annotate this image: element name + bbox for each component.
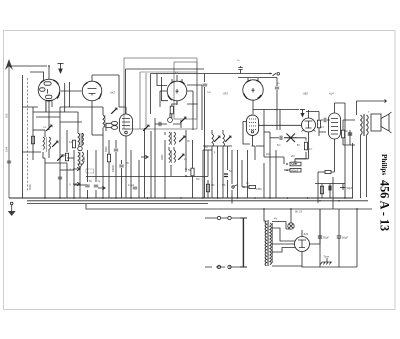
wire output stage (357, 101, 367, 198)
oscillator coil L4 (169, 132, 176, 145)
capacitor C4d (114, 149, 118, 151)
tube U4 (243, 78, 263, 114)
switch contact S2 (73, 182, 80, 186)
wire right-mid (318, 172, 333, 209)
capacitor C7 (280, 136, 282, 140)
svg-text:5m: 5m (229, 170, 232, 173)
tube envelope V1 (120, 107, 133, 198)
svg-text:25m: 25m (62, 154, 67, 157)
rectifier U6 AZ1 (295, 230, 310, 258)
wire speaker top (357, 100, 387, 103)
terminal strip 1 (290, 162, 301, 166)
svg-text:5000: 5000 (105, 146, 108, 152)
parts right of AL4 (341, 130, 344, 138)
wire osc bottom (169, 147, 174, 176)
capacitor C6a (224, 174, 228, 177)
resistor R7 (304, 142, 307, 150)
wire U1 to U2 (61, 90, 82, 92)
coupling parts U5-AL4 (317, 120, 320, 128)
switch contact S3 (141, 155, 148, 159)
coil L2b (78, 152, 84, 198)
coil L3 (103, 115, 105, 128)
junction (48, 65, 50, 67)
winding edge (272, 223, 274, 263)
trimmer T4 (179, 136, 185, 142)
wire U2 top (92, 75, 119, 107)
wire stage2 links (145, 91, 194, 198)
svg-text:5o-F: 5o-F (291, 162, 297, 166)
coil L2 (78, 133, 84, 146)
svg-text:8tl. 19: 8tl. 19 (295, 210, 303, 214)
wire top run A (126, 69, 204, 114)
resistor R9 (320, 186, 323, 194)
wire winding top to bus (264, 209, 267, 221)
wire det links (256, 110, 306, 199)
wire verticals stage1 (23, 75, 104, 198)
svg-text:AB2: AB2 (302, 92, 308, 96)
trimmer T0b (57, 155, 63, 161)
IF coil pair B (223, 130, 225, 150)
wire top run B (151, 74, 205, 115)
wire stage3 verticals (203, 146, 255, 204)
wire grid run (253, 109, 299, 111)
capacitor C8 (293, 162, 297, 164)
trimmer T3 (180, 117, 186, 123)
mains lead upper (205, 216, 243, 219)
capacitor C4b (119, 165, 123, 167)
resistor R8 (318, 170, 331, 173)
power transformer secondary winding B (270, 223, 272, 265)
capacitor C5c (275, 87, 279, 89)
grid arrow U5 (300, 110, 305, 118)
inner box (174, 62, 197, 119)
filter capacitor C10 (337, 209, 341, 267)
svg-text:AK2: AK2 (109, 91, 115, 95)
wire U4 cap run (238, 78, 277, 87)
trimmer T8 (225, 136, 231, 142)
wire O2 to U5 (259, 124, 302, 126)
terminal strip 2 (290, 168, 301, 172)
capacitor Ca on antenna lead (7, 161, 11, 163)
wire grid elbow (30, 72, 44, 80)
wire bottom power (302, 209, 357, 267)
resistor R2b (31, 136, 34, 144)
ground (8, 202, 16, 216)
capacitor C4c (133, 187, 137, 189)
resistor R3 (170, 106, 173, 114)
brand label (377, 154, 391, 231)
wire antenna to tube (9, 65, 47, 67)
speaker (371, 112, 392, 133)
tube U5 (295, 110, 316, 162)
wire bus 2b (27, 203, 208, 205)
shield box stage 2 (124, 58, 197, 129)
trimmer T5 (178, 154, 184, 160)
resistor R4b (107, 154, 110, 162)
svg-text:2000: 2000 (83, 156, 86, 162)
antenna (5, 59, 13, 198)
resistor R4 (191, 168, 194, 176)
trimmer T7 (214, 136, 220, 142)
svg-text:20000: 20000 (112, 165, 115, 172)
junction arrow (340, 187, 346, 189)
chassis ground (321, 258, 333, 265)
svg-text:2M: 2M (291, 155, 294, 158)
tube V3 AL4 (329, 103, 341, 172)
svg-text:Tone: Tone (324, 255, 330, 259)
capacitor C2b (58, 177, 62, 179)
IF transformer V2 (243, 115, 259, 146)
shield dashed (27, 78, 29, 192)
resistor R6 (242, 185, 256, 188)
trimmer T0 (52, 141, 58, 147)
svg-text:AL4: AL4 (328, 92, 334, 96)
capacitor C3b (159, 122, 161, 126)
wire horizontals stage1 (23, 107, 104, 185)
wire nested corners U3 (157, 74, 202, 131)
wire bus 2 (27, 200, 368, 202)
trimmer T1 (46, 125, 52, 131)
svg-text:500μF: 500μF (291, 168, 299, 172)
grid cap arrow (58, 64, 64, 75)
wire right row (315, 184, 345, 199)
trimmer T6 (143, 125, 149, 131)
svg-text:AF3: AF3 (222, 92, 228, 96)
wire U1 bottom leads (46, 101, 52, 112)
capacitor C1 (85, 185, 89, 187)
value labels scatter (28, 60, 370, 191)
resistor R1 (65, 153, 68, 161)
inner box 2 (140, 72, 197, 129)
pilot lamp (288, 209, 294, 229)
svg-text:Philips: Philips (380, 154, 388, 175)
wire IF can bottom (252, 145, 256, 147)
coil L1 (43, 137, 51, 158)
trimmer T2 (111, 108, 117, 114)
capacitor C5a (203, 84, 207, 86)
switch contact S4 (98, 186, 105, 190)
wire plate side (65, 82, 70, 112)
tube U2 (82, 75, 102, 135)
wire ground bus 1 (9, 197, 353, 199)
svg-text:AZ1: AZ1 (303, 232, 309, 236)
svg-text:100: 100 (5, 113, 9, 118)
capacitor C11 (329, 186, 331, 191)
output transformer (361, 114, 369, 136)
filter capacitor C9 (318, 209, 322, 267)
resistor R2 (72, 140, 75, 148)
wire midband verticals (109, 120, 193, 198)
svg-text:1M: 1M (266, 153, 269, 156)
svg-text:0.5M: 0.5M (256, 188, 261, 191)
svg-text:0.1μF: 0.1μF (128, 184, 135, 187)
tube U3 AF3 (160, 75, 193, 105)
power transformer primary bar (240, 218, 247, 267)
svg-text:2M: 2M (211, 184, 214, 187)
connector circle (78, 146, 82, 150)
capacitor C2 (94, 185, 98, 187)
padder P2 (168, 113, 173, 122)
padder P1 (106, 121, 118, 131)
svg-text:3000: 3000 (161, 154, 164, 160)
svg-text:50μF: 50μF (342, 236, 348, 240)
power transformer secondary winding A (265, 221, 267, 266)
svg-text:5000: 5000 (28, 184, 32, 190)
wire V1 top (119, 106, 126, 108)
switch contact S1 (73, 167, 80, 171)
junction dots det (286, 163, 288, 165)
switch label box (86, 169, 94, 173)
bus junction dots (44, 197, 358, 210)
wire grid line stage3 (205, 74, 273, 83)
tube U1 AK2 (38, 66, 60, 130)
svg-text:456 A - 13: 456 A - 13 (377, 180, 391, 231)
transformer taps (272, 209, 320, 266)
wire bus 3 (86, 204, 372, 209)
volume pot bold (284, 134, 297, 143)
IF coil pair A (212, 130, 214, 150)
svg-text:50μF: 50μF (347, 186, 353, 190)
oscillator coil L5 (169, 150, 176, 163)
resistor R5 (206, 184, 209, 192)
svg-text:4V: 4V (274, 217, 277, 221)
transformer core lines (268, 220, 269, 266)
svg-text:5m: 5m (277, 144, 280, 147)
wire long mid bus (86, 176, 208, 178)
junction dots osc (185, 168, 187, 170)
switch contact S5 (232, 185, 237, 188)
capacitor C5b (238, 66, 242, 74)
mains lead lower (205, 265, 243, 268)
wire U5 area (280, 110, 319, 131)
svg-text:1M: 1M (196, 178, 199, 181)
svg-text:50μF: 50μF (323, 236, 329, 240)
svg-text:0.04: 0.04 (5, 146, 9, 152)
